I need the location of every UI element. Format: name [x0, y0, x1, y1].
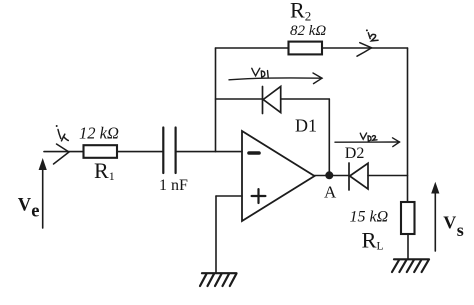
wire: plus input down to ground	[215, 196, 217, 273]
svg-text:1 nF: 1 nF	[159, 177, 188, 194]
resistor RL	[401, 202, 415, 234]
wire: D1 to output riser	[281, 98, 330, 100]
diode D1	[263, 87, 281, 114]
wire: R1 to capacitor	[117, 151, 163, 153]
wire: vertical from D1 down to node A	[328, 99, 330, 176]
svg-text:e: e	[31, 202, 39, 222]
wire: op-amp plus input	[216, 195, 242, 197]
wire: top feedback to R2	[216, 47, 289, 49]
output arrow Vs	[431, 182, 439, 251]
svg-text:R2: R2	[290, 0, 311, 24]
resistor R1	[84, 145, 118, 158]
svg-text:A: A	[324, 183, 337, 202]
ground under op-amp	[200, 273, 237, 286]
svg-text:s: s	[457, 220, 464, 240]
svg-text:RL: RL	[362, 227, 384, 252]
svg-text:V: V	[18, 195, 32, 215]
svg-text:D2: D2	[345, 145, 365, 162]
svg-text:R1: R1	[94, 158, 115, 183]
current arrow i2 (handwritten)	[357, 29, 378, 56]
svg-text:D1: D1	[295, 116, 317, 136]
wire: D2 to right riser	[368, 175, 408, 177]
ground under RL	[392, 259, 429, 272]
diode D2	[349, 163, 368, 190]
svg-text:82 kΩ: 82 kΩ	[290, 23, 326, 39]
svg-text:12 kΩ: 12 kΩ	[79, 124, 119, 143]
capacitor C1 plates	[163, 128, 175, 174]
wire: left vertical feedback riser	[215, 48, 217, 152]
source arrow Ve	[39, 158, 47, 228]
resistor R2	[289, 42, 323, 55]
wire: D1 feedback branch left segment	[216, 98, 263, 100]
current arrow i1 (handwritten)	[54, 125, 70, 164]
wire: right vertical riser	[407, 48, 409, 202]
op-amp U1	[242, 131, 315, 221]
wire: input from Ve to R1	[44, 151, 84, 153]
svg-text:15 kΩ: 15 kΩ	[350, 208, 389, 225]
wire: op-amp output to D2	[315, 175, 350, 177]
wire: RL to ground	[407, 234, 409, 259]
node A junction dot	[325, 171, 333, 179]
wire: capacitor to op-amp minus input	[176, 151, 242, 153]
wire: R2 to right riser	[322, 47, 408, 49]
svg-text:V: V	[443, 213, 456, 233]
voltage arrow vD2 (handwritten)	[335, 133, 400, 147]
voltage arrow vD1 (handwritten)	[229, 68, 322, 83]
